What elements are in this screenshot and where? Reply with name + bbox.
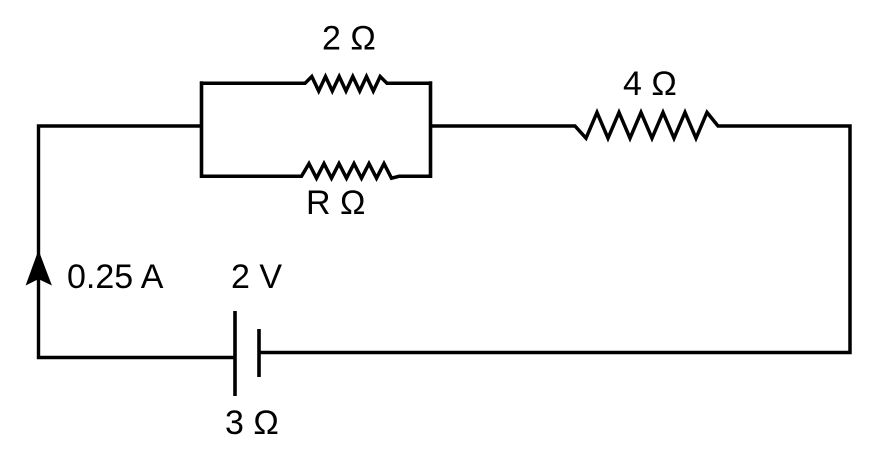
wire: right branch with resistor 4 Ω zigzag, right vertical, bottom-right horizontal to battery bbox=[259, 112, 850, 352]
wire: left branch (bottom-left horizontal, left vertical, mid-left horizontal to parallel box) bbox=[39, 126, 236, 358]
current arrow 0.25 A (pointing up on left wire) bbox=[27, 252, 52, 285]
battery negative short plate bbox=[257, 329, 261, 377]
svg-text:2 V: 2 V bbox=[231, 258, 282, 296]
node: parallel box right vertical wire bbox=[429, 81, 433, 178]
resistor 2 Ω (top branch of parallel box, zigzag) bbox=[200, 77, 432, 92]
svg-text:0.25 A: 0.25 A bbox=[67, 258, 164, 296]
svg-text:R Ω: R Ω bbox=[306, 184, 365, 222]
node: parallel box left vertical wire bbox=[200, 81, 204, 178]
svg-text:2 Ω: 2 Ω bbox=[322, 20, 376, 58]
svg-text:3 Ω: 3 Ω bbox=[225, 404, 279, 442]
resistor R Ω (bottom branch of parallel box, zigzag) bbox=[200, 164, 432, 179]
battery positive long plate bbox=[233, 311, 237, 396]
svg-text:4 Ω: 4 Ω bbox=[623, 65, 677, 103]
